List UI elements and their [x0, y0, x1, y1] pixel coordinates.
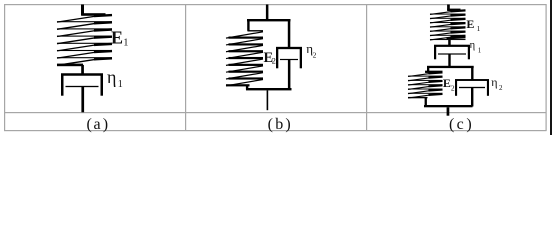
svg-text:2: 2 — [313, 51, 317, 60]
label E2 (c) — [443, 76, 455, 92]
svg-text:c: c — [457, 116, 464, 133]
top bar (b) — [247, 19, 291, 21]
svg-text:1: 1 — [118, 79, 123, 90]
wire left branch (b) — [247, 21, 249, 31]
page edge line — [550, 0, 552, 135]
label (c) — [449, 116, 472, 133]
svg-text:(: ( — [87, 116, 92, 133]
label E2 (b) — [264, 50, 276, 66]
svg-text:E: E — [443, 76, 451, 90]
spring E2 (c) — [408, 71, 443, 99]
svg-text:b: b — [275, 116, 283, 133]
label eta2 (c) — [491, 75, 503, 92]
wire top rod (c) — [447, 5, 450, 11]
wire bottom rod (b) — [267, 90, 269, 110]
svg-text:(: ( — [449, 116, 454, 133]
dashpot eta2 (b) — [276, 47, 302, 68]
svg-text:2: 2 — [499, 84, 503, 92]
wire piston rod (c) — [471, 88, 473, 107]
wire piston rod (a) — [81, 87, 84, 112]
svg-text:): ) — [466, 116, 471, 133]
svg-text:1: 1 — [123, 37, 128, 48]
kelvin top bar (c) — [427, 66, 474, 68]
svg-text:2: 2 — [451, 83, 455, 92]
wire right branch (c) — [471, 68, 473, 80]
wire spring-to-bar connector (c) — [425, 98, 427, 106]
svg-text:2: 2 — [272, 55, 276, 65]
label eta1 (a) — [107, 67, 123, 90]
wire piston rod to kelvin (c) — [448, 55, 450, 67]
svg-text:η: η — [470, 40, 476, 51]
label (a) — [87, 116, 109, 133]
spring E2 (b) — [226, 30, 263, 86]
dashpot eta1 (a) — [61, 73, 103, 95]
svg-text:): ) — [285, 116, 290, 133]
dashpot eta2 (c) — [455, 79, 489, 96]
wire mid rod (a) — [81, 65, 84, 75]
wire right branch (b) — [288, 21, 291, 48]
bottom bar (b) — [246, 88, 292, 90]
svg-text:a: a — [94, 116, 101, 133]
table grid — [4, 4, 547, 131]
wire bottom rod (c) — [447, 107, 450, 115]
label E1 (a) — [111, 27, 128, 48]
wire rod spring-dashpot (c) — [448, 40, 451, 46]
svg-text:1: 1 — [477, 24, 481, 33]
svg-text:η: η — [491, 75, 497, 89]
wire left branch (c) — [427, 68, 429, 73]
label E1 (c) — [466, 17, 480, 33]
label (b) — [268, 116, 291, 133]
dashpot eta1 (c) — [434, 45, 470, 60]
svg-text:E: E — [466, 17, 474, 31]
spring E1 (a) — [57, 13, 112, 66]
svg-text:(: ( — [268, 116, 273, 133]
wire piston rod (b) — [288, 60, 291, 90]
spring E1 (c) — [430, 9, 466, 40]
label eta2 (b) — [306, 41, 316, 60]
svg-text:E: E — [111, 27, 123, 47]
label eta1 (c) — [470, 40, 482, 55]
svg-text:): ) — [103, 116, 108, 133]
wire spring-to-bar connector (b) — [246, 85, 248, 89]
svg-text:η: η — [107, 67, 116, 87]
wire top rod (b) — [266, 5, 269, 20]
bottom bar (c) — [424, 105, 473, 107]
svg-text:1: 1 — [478, 47, 482, 55]
wire top rod (a) — [81, 5, 84, 16]
